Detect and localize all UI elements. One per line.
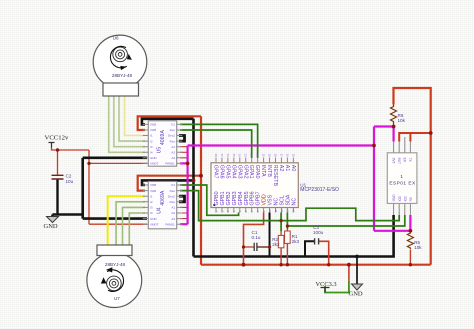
- wire R5 bottom lead: [409, 250, 411, 265]
- wire magenta horizontal to ESP: [188, 144, 374, 146]
- svg-text:12: 12: [280, 209, 284, 213]
- svg-text:A2: A2: [171, 211, 175, 215]
- wire motor U6 lead C: [119, 96, 145, 141]
- svg-text:100u: 100u: [313, 230, 324, 235]
- svg-text:I4: I4: [150, 211, 153, 215]
- svg-text:Dec: Dec: [170, 189, 176, 193]
- junction red ESP feed / right rail: [429, 131, 433, 135]
- svg-text:28: 28: [214, 154, 218, 158]
- wire motor U7 lead D: [129, 213, 145, 245]
- svg-text:VDB: VDB: [150, 123, 156, 127]
- svg-text:A2: A2: [171, 151, 175, 155]
- svg-text:VHB: VHB: [150, 189, 156, 193]
- wire R1 bottom lead: [286, 243, 288, 264]
- svg-text:13: 13: [286, 209, 290, 213]
- svg-text:GPA6: GPA6: [218, 165, 224, 179]
- wire green SDA vertical: [286, 213, 288, 230]
- wire VCC3.3 green hook: [325, 281, 349, 293]
- junction GND drop / black rail: [355, 255, 359, 259]
- wire VCC to U5 pin8: [89, 162, 147, 164]
- wire C1 left lead: [244, 246, 255, 248]
- svg-text:Dec2: Dec2: [168, 194, 175, 198]
- wire U4 red hook pin2: [138, 176, 201, 191]
- wire U5 NC stubs right: [180, 147, 187, 158]
- power VCC12v: [45, 135, 69, 148]
- junction magenta branch: [372, 144, 376, 148]
- wire black vertical mid: [192, 119, 195, 257]
- svg-text:Dec: Dec: [170, 128, 176, 132]
- svg-text:I1: I1: [150, 194, 153, 198]
- wire R2 bottom lead: [280, 248, 282, 265]
- svg-text:11: 11: [274, 209, 278, 212]
- wire magenta right vertical: [373, 127, 375, 231]
- svg-text:10k: 10k: [398, 118, 406, 123]
- wire motor U7 lead C: [123, 207, 146, 245]
- svg-text:INTA: INTA: [260, 165, 266, 177]
- svg-text:EN: EN: [403, 158, 407, 163]
- svg-text:25: 25: [232, 154, 236, 158]
- svg-text:28BYJ-48: 28BYJ-48: [112, 73, 133, 78]
- wire black GND rail bottom: [194, 215, 394, 257]
- svg-text:24: 24: [238, 154, 242, 158]
- svg-text:23: 23: [244, 154, 248, 158]
- svg-text:INTB: INTB: [266, 165, 272, 178]
- wire magenta to ESP pin4 bottom: [374, 215, 410, 231]
- junction VCC bus / U5 VMOT: [87, 162, 90, 165]
- svg-text:GND: GND: [349, 290, 363, 297]
- junction R5 / red rail: [409, 263, 412, 266]
- junction R6 bottom / ESP pin1: [392, 125, 396, 129]
- resistor R5: [407, 231, 422, 250]
- svg-text:GND: GND: [150, 217, 158, 221]
- svg-text:A3: A3: [171, 217, 175, 221]
- junction C3 / red rail: [327, 263, 330, 266]
- wire U5 output blob pins3-4: [179, 136, 185, 142]
- svg-text:Res: Res: [170, 200, 176, 204]
- svg-text:14: 14: [292, 209, 296, 213]
- svg-text:VCC12v: VCC12v: [45, 135, 69, 142]
- svg-text:GND: GND: [150, 156, 158, 160]
- svg-text:RESETB: RESETB: [272, 165, 278, 187]
- svg-text:GPA7: GPA7: [213, 165, 219, 179]
- wire green U5 pin2 to GPA1: [180, 130, 252, 158]
- svg-text:26: 26: [226, 154, 230, 158]
- svg-text:20: 20: [262, 154, 266, 158]
- wire C1 right lead to VSS: [257, 246, 269, 248]
- junction VCC3.3 / red rail: [347, 263, 351, 267]
- wire VCC to U4 pin8: [89, 223, 147, 225]
- svg-text:VHB: VHB: [150, 128, 156, 132]
- svg-text:18: 18: [273, 154, 277, 158]
- junction red vertical / U4 hook: [199, 174, 203, 178]
- junction R5 / ESP pin4: [409, 229, 413, 233]
- svg-text:I3: I3: [150, 145, 153, 149]
- wire magenta vertical U5-U4: [187, 146, 189, 225]
- svg-text:A1: A1: [284, 165, 290, 172]
- svg-text:0.1u: 0.1u: [252, 235, 261, 240]
- svg-text:10k: 10k: [414, 245, 422, 250]
- wire motor U6 lead A: [109, 96, 145, 152]
- junction SDA / R1: [286, 224, 289, 227]
- svg-text:GPA3: GPA3: [236, 165, 242, 179]
- wire U4 black hook pin1: [142, 180, 194, 185]
- svg-text:PANEL: PANEL: [165, 162, 175, 166]
- svg-text:A2: A2: [278, 165, 284, 172]
- svg-text:27: 27: [220, 154, 224, 158]
- capacitor C2: [52, 174, 74, 184]
- ground GND right: [349, 284, 363, 297]
- wire green U4 pin1 to GPB3: [180, 185, 239, 215]
- wire magenta U5 pin9 stub: [180, 162, 188, 164]
- driver IC U4 4069A: [143, 181, 183, 228]
- motor U6: [93, 35, 147, 96]
- wire VCC12v to bus: [52, 148, 90, 151]
- capacitor C1: [252, 230, 261, 251]
- wire R2 top stub: [280, 231, 282, 235]
- svg-text:GPA5: GPA5: [224, 165, 230, 179]
- svg-text:VDB: VDB: [150, 183, 156, 187]
- capacitor C3: [313, 225, 324, 245]
- svg-text:10: 10: [268, 209, 272, 213]
- wire green SDA run to ESP pin3: [287, 215, 404, 226]
- svg-text:2k2: 2k2: [272, 242, 280, 247]
- wire green U5 pin1 to GPA0: [180, 124, 258, 158]
- svg-text:U4: U4: [156, 207, 162, 214]
- wire motor U7 lead B: [116, 202, 145, 245]
- svg-text:A1: A1: [171, 206, 175, 210]
- svg-text:GND: GND: [44, 223, 58, 230]
- wire C3 left lead to gnd rail: [305, 241, 314, 256]
- svg-text:17: 17: [279, 154, 283, 158]
- IC U1 MCP23017-E/SO: [211, 154, 339, 213]
- wire VCC bus vertical: [88, 150, 90, 224]
- svg-text:GPA1: GPA1: [248, 165, 254, 179]
- svg-text:Res: Res: [170, 139, 176, 143]
- wire green U4 pin2 SCL run to ESP pin2: [180, 191, 399, 221]
- wire green SCL pulldown: [280, 213, 282, 232]
- svg-text:ESP01 EX: ESP01 EX: [389, 181, 416, 187]
- svg-text:MCP23017-E/SO: MCP23017-E/SO: [300, 187, 339, 193]
- wire U4 output blob pins3-4: [179, 196, 185, 202]
- svg-text:I3: I3: [150, 206, 153, 210]
- wire VCC3.3 red drop: [348, 265, 350, 281]
- svg-text:O1: O1: [171, 183, 175, 187]
- wire GND bus to U5 pin7: [83, 157, 147, 160]
- svg-text:U6: U6: [113, 36, 119, 41]
- wire MCP VDD to red rail: [244, 213, 264, 265]
- driver IC U5 4069A: [143, 121, 183, 166]
- wire red vertical mid: [200, 116, 202, 264]
- svg-text:VMOT: VMOT: [150, 222, 159, 226]
- svg-text:4069A: 4069A: [160, 190, 166, 206]
- svg-text:4069A: 4069A: [160, 130, 166, 146]
- svg-text:1: 1: [400, 174, 403, 180]
- svg-text:16: 16: [285, 154, 289, 158]
- wire red ESP top feed: [399, 133, 431, 142]
- junction VDD drop / red rail: [242, 263, 246, 267]
- junction SCL / R2: [280, 219, 283, 222]
- wire U5 red hook pin2: [138, 116, 201, 130]
- svg-text:VCC3.3: VCC3.3: [316, 281, 337, 288]
- junction C1 / VSS line: [268, 245, 271, 248]
- svg-text:I4: I4: [150, 151, 153, 155]
- wire C2 to GND (black): [56, 179, 58, 215]
- wire GND horizontal: [52, 215, 82, 217]
- svg-text:Dec2: Dec2: [168, 134, 175, 138]
- svg-text:28BYJ-48: 28BYJ-48: [105, 262, 126, 267]
- junction VCC12v tap: [56, 148, 59, 151]
- svg-text:O1: O1: [171, 123, 175, 127]
- svg-text:RST: RST: [397, 158, 401, 164]
- svg-text:NC: NC: [291, 198, 297, 206]
- wire GND drop right: [356, 257, 358, 285]
- svg-text:GND: GND: [392, 194, 396, 202]
- wire magenta U4 pin9 stub: [180, 223, 188, 225]
- wire motor U6 lead B: [114, 96, 145, 147]
- wire motor U6 lead D yellow: [125, 96, 146, 136]
- svg-text:15: 15: [291, 154, 295, 158]
- svg-text:A0: A0: [290, 165, 296, 172]
- wire U4 NC stubs right: [180, 207, 187, 218]
- resistor R2: [272, 235, 284, 247]
- svg-text:VMOT: VMOT: [150, 162, 159, 166]
- power VCC3.3: [316, 281, 337, 293]
- resistor R1: [285, 231, 300, 244]
- wire red right loop to R6: [394, 88, 431, 265]
- ground GND left: [44, 217, 59, 231]
- svg-text:21: 21: [256, 154, 260, 158]
- wire GND bus vertical: [81, 158, 84, 219]
- motor U7: [87, 245, 142, 308]
- wire MCP VSS to gnd rail: [269, 213, 271, 257]
- resistor R6: [391, 105, 406, 127]
- svg-text:10u: 10u: [66, 179, 74, 184]
- wire R1 top stub: [286, 229, 288, 231]
- svg-text:19: 19: [267, 154, 271, 158]
- junction black vertical / U4 hook: [192, 179, 196, 183]
- svg-text:I2: I2: [150, 200, 153, 204]
- svg-text:GPA0: GPA0: [254, 165, 260, 179]
- wire C3 right lead to red rail: [319, 241, 329, 264]
- wire red rail bottom: [201, 264, 431, 266]
- wire VCC12v to C2: [57, 150, 59, 175]
- svg-text:I1: I1: [150, 134, 153, 138]
- svg-text:U7: U7: [114, 296, 120, 301]
- svg-text:IO0: IO0: [398, 196, 402, 201]
- module U3 ESP01 EX: [387, 137, 417, 215]
- svg-text:I2: I2: [150, 139, 153, 143]
- svg-text:IO2: IO2: [403, 196, 407, 201]
- svg-text:GPA2: GPA2: [242, 165, 248, 179]
- wire U5 black hook pin1: [142, 119, 194, 125]
- svg-text:2k3: 2k3: [292, 239, 300, 244]
- svg-text:PANEL: PANEL: [165, 222, 175, 226]
- junction C1 / VDD line: [242, 245, 245, 248]
- wire motor U7 lead yellow: [108, 196, 145, 245]
- junction magenta U5 PANEL: [186, 162, 190, 166]
- svg-text:22: 22: [250, 154, 254, 158]
- wire magenta to R6 bottom and ESP pin1: [374, 127, 394, 142]
- svg-text:A1: A1: [171, 145, 175, 149]
- junction R1 / red rail: [286, 263, 289, 266]
- svg-text:GPA4: GPA4: [230, 165, 236, 179]
- svg-text:3V3: 3V3: [391, 158, 395, 164]
- svg-text:U5: U5: [156, 147, 162, 154]
- svg-text:A3: A3: [171, 156, 175, 160]
- wire GND bus to U4 pin7: [83, 217, 147, 220]
- junction R2 / red rail: [279, 263, 282, 266]
